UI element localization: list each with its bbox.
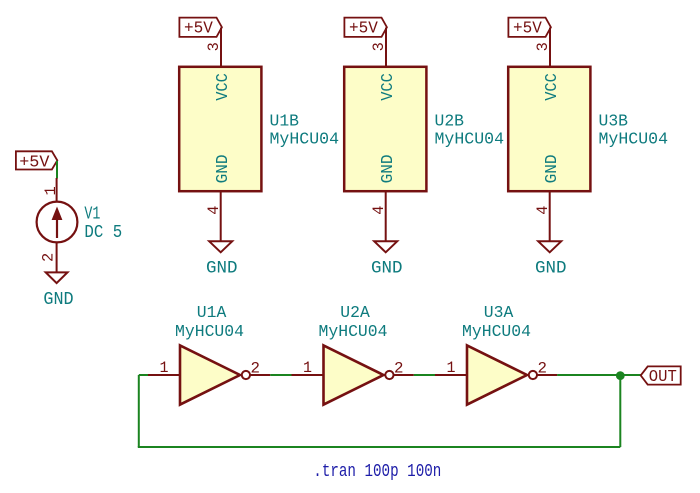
svg-text:+5V: +5V [19,153,50,172]
svg-text:U3B: U3B [599,111,629,130]
svg-text:MyHCU04: MyHCU04 [435,129,505,148]
svg-text:V1: V1 [84,204,100,224]
svg-text:U1A: U1A [197,303,227,322]
svg-text:U2A: U2A [340,303,370,322]
svg-text:MyHCU04: MyHCU04 [270,129,340,148]
svg-text:U2B: U2B [435,111,465,130]
svg-text:U3A: U3A [484,303,514,322]
svg-text:.tran 100p 100n: .tran 100p 100n [313,462,441,482]
svg-text:U1B: U1B [270,111,300,130]
svg-text:GND: GND [43,290,73,310]
svg-text:DC 5: DC 5 [84,223,122,243]
svg-text:2: 2 [40,253,58,262]
svg-text:MyHCU04: MyHCU04 [599,129,669,148]
svg-text:OUT: OUT [649,368,677,387]
svg-text:1: 1 [42,186,60,195]
